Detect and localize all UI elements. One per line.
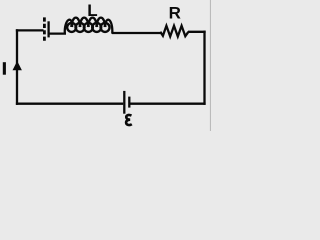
- wire resistor to top-right corner: [188, 31, 206, 33]
- svg-text:L: L: [87, 1, 97, 20]
- capacitor C dashed plate: [43, 17, 46, 42]
- wire inductor to resistor: [112, 32, 161, 34]
- wire left vertical (top-left corner to bottom-left corner): [16, 29, 18, 105]
- svg-text:R: R: [169, 3, 181, 22]
- resistor R zigzag: [160, 26, 188, 37]
- battery short plate (negative): [128, 97, 130, 108]
- label I (current): [3, 62, 6, 74]
- right edge border artifact: [210, 0, 211, 131]
- wire top-left horizontal (corner to capacitor): [16, 29, 44, 31]
- current direction arrow on left wire: [13, 61, 22, 70]
- battery long plate (positive): [123, 91, 125, 114]
- capacitor C solid plate: [47, 21, 49, 37]
- label epsilon (EMF of battery): [126, 115, 132, 125]
- wire bottom right of battery: [129, 103, 205, 105]
- wire bottom left of battery: [16, 103, 123, 105]
- inductor L coil: [65, 18, 113, 34]
- wire capacitor to inductor: [49, 32, 66, 34]
- wire right vertical (top-right corner to bottom-right corner): [203, 31, 205, 105]
